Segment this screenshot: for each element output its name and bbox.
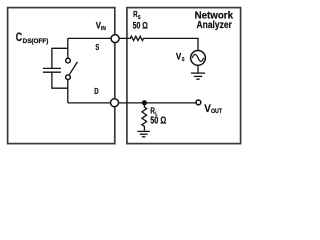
svg-text:50 Ω: 50 Ω [133,21,148,31]
svg-text:D: D [94,86,98,96]
svg-text:OUT: OUT [211,108,222,115]
svg-text:IN: IN [101,26,106,32]
svg-text:S: S [95,42,99,52]
svg-text:C: C [16,32,22,44]
svg-text:V: V [176,51,181,61]
svg-text:DS(OFF): DS(OFF) [23,38,49,45]
svg-text:Analyzer: Analyzer [197,20,232,31]
svg-text:V: V [204,103,211,115]
svg-text:S: S [182,57,185,63]
svg-text:50 Ω: 50 Ω [150,116,166,127]
